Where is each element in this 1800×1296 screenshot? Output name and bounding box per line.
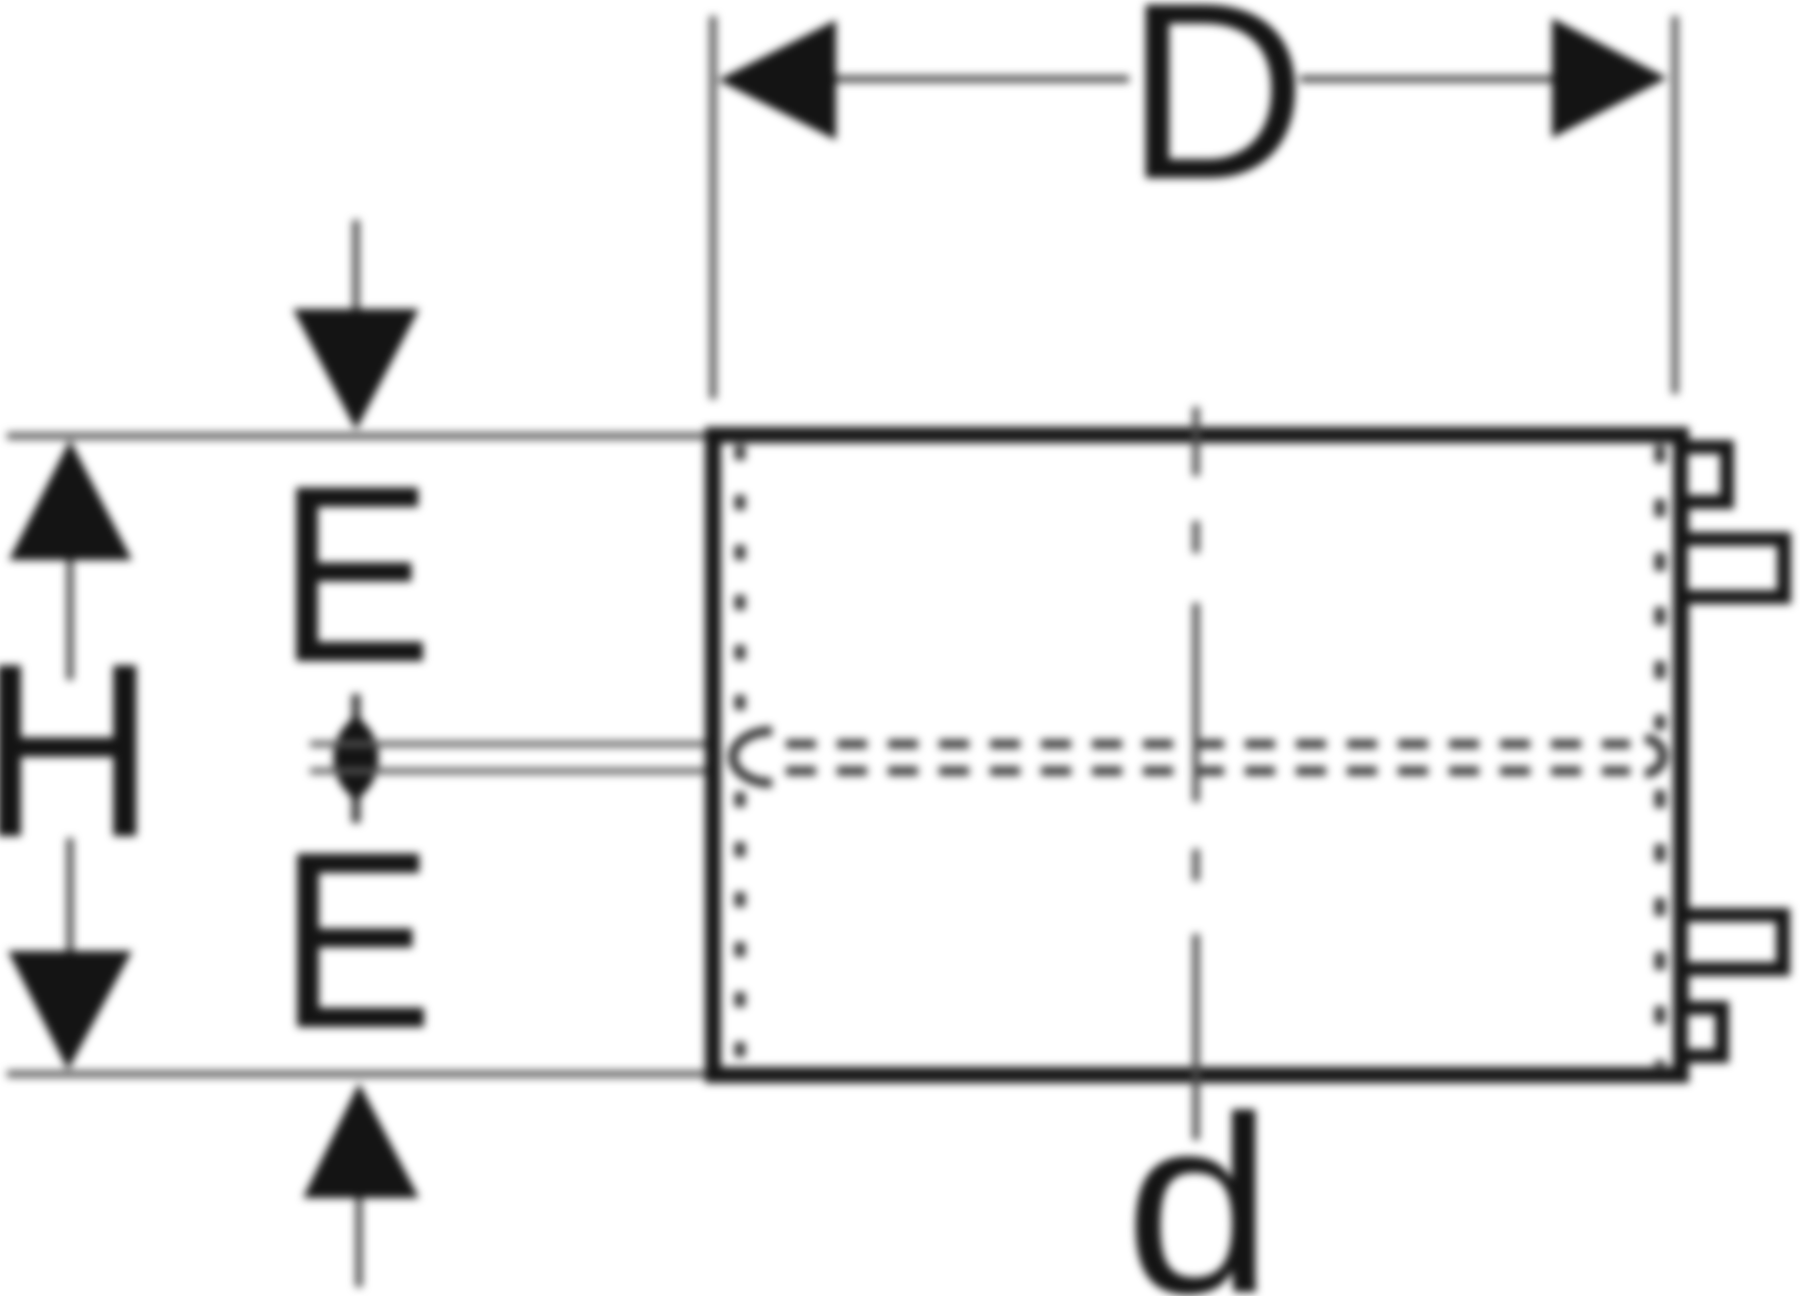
centre marker vertical tick <box>352 694 361 823</box>
extension line left of dimension D <box>710 16 717 399</box>
dimension H arrowhead up <box>9 440 132 560</box>
svg-text:E: E <box>278 800 434 1081</box>
dimension D arrowhead right <box>1552 18 1667 138</box>
bottom guide line <box>7 1071 713 1078</box>
centre line dot lower <box>1193 849 1200 881</box>
centre line tick through top edge <box>1193 407 1200 476</box>
centre line long dash through bottom edge <box>1193 934 1200 1140</box>
inner dotted line right <box>1655 445 1666 1066</box>
dimension D arrowhead left <box>718 20 836 140</box>
svg-text:H: H <box>0 611 157 889</box>
svg-text:E: E <box>277 434 433 715</box>
svg-text:D: D <box>1125 0 1307 232</box>
label H <box>0 611 157 889</box>
centre marker diamond <box>334 716 379 800</box>
bore dashed line lower <box>786 767 1630 776</box>
dimension H line upper tail <box>67 558 74 680</box>
dimension D line left segment <box>830 76 1129 83</box>
dimension E upper arrow tail <box>353 220 360 312</box>
label E top <box>277 434 433 715</box>
dimension H line lower tail <box>67 838 74 953</box>
dimension D line right segment <box>1300 76 1556 83</box>
centre line long dash upper <box>1193 603 1200 802</box>
label E bottom <box>278 800 434 1081</box>
label d <box>1125 1065 1274 1296</box>
centre marker double line lower <box>310 768 710 774</box>
dimension E arrowhead up onto bottom guide <box>303 1083 419 1198</box>
label D <box>1125 0 1307 232</box>
electrofusion terminal top large <box>1681 539 1784 597</box>
electrofusion terminal bottom small <box>1681 1008 1722 1056</box>
centre marker double line upper <box>310 741 710 747</box>
dimension H arrowhead down <box>8 951 132 1070</box>
coupling body outline <box>713 435 1681 1075</box>
bore outline left arc <box>733 731 772 783</box>
dimension E lower arrow tail <box>356 1195 363 1287</box>
top guide line <box>7 433 713 440</box>
electrofusion terminal bottom large <box>1681 915 1783 969</box>
bore dashed line upper <box>786 740 1630 749</box>
centre line dot upper <box>1193 521 1200 553</box>
electrofusion terminal top small <box>1681 447 1727 502</box>
dimension E arrowhead down onto top guide <box>293 309 419 430</box>
bore outline right arc <box>1645 739 1663 773</box>
inner dotted line left <box>735 445 746 1066</box>
svg-text:d: d <box>1125 1065 1274 1296</box>
extension line right of dimension D <box>1672 16 1679 394</box>
